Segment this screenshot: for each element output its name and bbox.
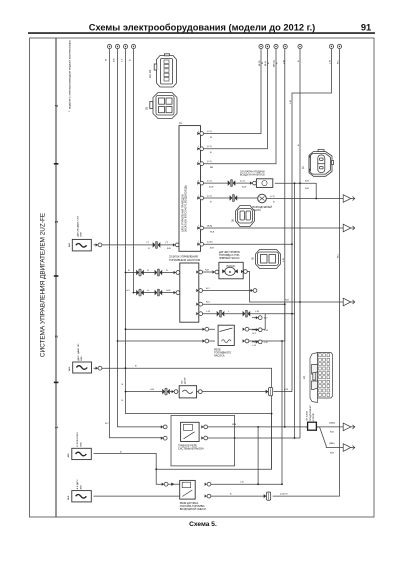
- connector splice fuel d1: [217, 310, 225, 317]
- svg-text:(L-Y): (L-Y): [270, 196, 275, 198]
- svg-text:(L-Y): (L-Y): [207, 146, 212, 148]
- sender right pin: [241, 270, 247, 274]
- fuel ECU pin Rd: [196, 312, 202, 316]
- svg-text:G-Y: G-Y: [126, 290, 130, 292]
- wire A1 vertical from terminal to main relay pin1: [110, 49, 164, 438]
- svg-text:(B-O): (B-O): [259, 60, 261, 66]
- svg-text:G: G: [147, 290, 149, 292]
- wire A4 vertical to fuel pump ECU row: [133, 49, 135, 293]
- wire long drop B4: [284, 49, 286, 427]
- terminal battery row A1: [107, 44, 111, 48]
- terminal B4: [283, 44, 287, 48]
- svg-text:Схема 5.: Схема 5.: [189, 521, 217, 528]
- sensor S5 knock sensor box: [179, 378, 196, 398]
- svg-text:(**): (**): [165, 242, 168, 244]
- svg-text:ТОПЛИВНЫМ НАСОСОМ: ТОПЛИВНЫМ НАСОСОМ: [169, 258, 200, 262]
- svg-text:(**): (**): [146, 242, 149, 244]
- valve left pin: [250, 181, 256, 185]
- terminal B2: [265, 44, 269, 48]
- terminal pump relay R2: [243, 339, 249, 343]
- terminal afr relay L1: [162, 482, 168, 486]
- svg-text:2: 2: [54, 335, 59, 338]
- svg-text:И РЕЛЕ: И РЕЛЕ: [313, 412, 315, 421]
- zone tick 4/3: [54, 163, 59, 165]
- wire ECU pin3: [204, 49, 277, 164]
- svg-text:5: 5: [198, 196, 199, 198]
- wire fuel sender to arrow: [245, 272, 343, 303]
- wire splice stub 2: [252, 329, 258, 331]
- terminal pump relay L2: [203, 339, 209, 343]
- ground arrow 3: [343, 298, 355, 306]
- svg-text:ЛИВНЫЙ НАСОС: ЛИВНЫЙ НАСОС: [219, 257, 240, 260]
- svg-text:ВОЗДУШНОЙ СМЕСИ: ВОЗДУШНОЙ СМЕСИ: [180, 508, 206, 511]
- svg-text:3: 3: [54, 220, 59, 223]
- splice end 1: [256, 316, 262, 320]
- wire fuse branch to arrow 5: [320, 427, 344, 448]
- wire terminal B5 drop: [299, 49, 301, 438]
- sensor S3 o2 sensor box: [67, 432, 91, 460]
- wire fuel ECU row b: [126, 272, 178, 274]
- svg-text:W-B: W-B: [232, 424, 237, 426]
- wire terminal C1 bend: [292, 49, 332, 392]
- wire relay afr right bottom: [211, 495, 266, 497]
- wire ECU pin1: [204, 49, 262, 134]
- svg-text:СИСТЕМЫ ВПРЫСКА: СИСТЕМЫ ВПРЫСКА: [178, 447, 204, 450]
- wire pump relay left stubs: [118, 329, 215, 341]
- svg-text:L-Y: L-Y: [122, 58, 124, 62]
- ground arrow 4: [343, 423, 355, 431]
- svg-text:B-R: B-R: [114, 58, 116, 62]
- wire splice stub 1: [252, 317, 258, 319]
- svg-text:(L-Y): (L-Y): [207, 180, 212, 182]
- svg-text:(L-Y): (L-Y): [207, 195, 212, 197]
- svg-text:B-Y: B-Y: [105, 423, 109, 425]
- svg-text:(L-Y): (L-Y): [240, 180, 245, 182]
- terminal C1: [329, 44, 333, 48]
- connector splice row g1: [136, 289, 144, 296]
- fuel ECU pin Ra: [196, 270, 202, 274]
- wire ECU pin4 to intake valve: [204, 182, 253, 184]
- svg-text:W-B: W-B: [210, 231, 215, 233]
- wire pump ECU pin b: [201, 290, 253, 292]
- junction block enclosure: [171, 416, 235, 466]
- relay K1 fuel pump relay: [214, 325, 234, 357]
- sensor S2 temp sensor box: [68, 343, 92, 373]
- svg-text:(BR-B): (BR-B): [273, 60, 275, 67]
- svg-text:4: 4: [54, 104, 59, 107]
- wire relay afr left link: [168, 483, 180, 485]
- wire pump ECU pin a: [201, 271, 217, 273]
- svg-text:R-B: R-B: [330, 432, 334, 434]
- svg-text:ЕМ, М2: ЕМ, М2: [149, 69, 152, 78]
- wire pump relay right top to bowtie row: [249, 314, 265, 330]
- ECU pin 7: [197, 242, 203, 246]
- svg-text:1: 1: [54, 426, 59, 429]
- connector X3 round illustration: [302, 150, 334, 177]
- svg-text:ДТОЖ: ДТОЖ: [185, 378, 187, 384]
- connector splice fuel d2: [243, 310, 251, 317]
- wire A3 vertical then top of junction-block loop: [126, 49, 272, 470]
- svg-text:Схемы электрооборудования (мод: Схемы электрооборудования (модели до 201…: [89, 23, 316, 33]
- svg-text:R-B: R-B: [205, 269, 209, 271]
- wire fuel ECU row g: [134, 292, 178, 294]
- sender left pin: [213, 270, 219, 274]
- svg-text:(R-B): (R-B): [207, 225, 212, 227]
- wire knock sensor row: [126, 391, 293, 393]
- wire intake valve to riser: [275, 183, 316, 198]
- connector splice knock line: [162, 388, 170, 395]
- header rule: [28, 32, 375, 34]
- svg-text:4: 4: [198, 131, 199, 133]
- splice end 2: [256, 328, 262, 332]
- svg-text:B-R: B-R: [210, 248, 214, 250]
- connector X6 multipin block illustration: [303, 353, 332, 403]
- terminal B1: [259, 44, 263, 48]
- connector X5 fuel sender illustration: [251, 250, 280, 269]
- fuse F1 engine room fuse block: [306, 404, 319, 430]
- connector splice battery line: [153, 242, 161, 249]
- svg-text:ПРЕДОХРАНИТ.: ПРЕДОХРАНИТ.: [309, 404, 312, 421]
- wire ECU pin7 junction with C1 drop: [204, 243, 293, 245]
- sensor S4 o2 sensor box 2: [67, 479, 91, 502]
- ECU pin 5: [197, 196, 203, 200]
- wire relay afr right top: [211, 483, 282, 485]
- wire main relay R2 feed: [208, 437, 301, 439]
- svg-text:3: 3: [198, 146, 199, 148]
- svg-text:А-Е ДАТЧ: А-Е ДАТЧ: [76, 479, 79, 489]
- wire pump ECU pin d: [201, 313, 295, 315]
- wire air pump to arrow: [266, 198, 343, 200]
- svg-text:B-R: B-R: [167, 248, 171, 250]
- fuel ECU pin Rc: [196, 302, 202, 306]
- terminal A2: [115, 44, 119, 48]
- wire battery feed horizontal: [94, 244, 176, 246]
- wire branch to afr sensor relay line: [281, 341, 283, 484]
- zone tick 2/1: [54, 382, 59, 384]
- terminal knock box left: [172, 390, 178, 394]
- terminal A3: [123, 44, 127, 48]
- svg-text:ВКЛ: ВКЛ: [80, 485, 82, 490]
- svg-text:8: 8: [198, 181, 199, 183]
- sensor S2 right pin: [96, 366, 102, 370]
- connector splice row g2: [155, 289, 163, 296]
- connector X4 oval illustration: [232, 206, 255, 227]
- terminal afr relay R2: [205, 494, 211, 498]
- terminal afr relay R1: [205, 482, 211, 486]
- svg-text:02 МОНИ ВКЛ: 02 МОНИ ВКЛ: [77, 432, 79, 447]
- wire terminal C2 long drop: [273, 49, 340, 497]
- svg-text:ВБК: ВБК: [81, 356, 83, 361]
- svg-text:АКБ: АКБ: [67, 453, 70, 458]
- svg-text:R-B: R-B: [330, 452, 334, 454]
- fuel pump ECU U2: [169, 255, 200, 323]
- wire pump relay right bottom to fuel ECU pin c line: [249, 304, 285, 341]
- terminal pump relay L1: [203, 327, 209, 331]
- connector X1 six pin illustration: [149, 54, 177, 87]
- ECU pin 2: [197, 147, 203, 151]
- svg-text:(L-B) W: (L-B) W: [280, 493, 288, 495]
- svg-text:91: 91: [361, 23, 371, 33]
- single plug knock: [266, 388, 273, 396]
- svg-text:G-R: G-R: [150, 389, 154, 391]
- fuel ECU pin La: [174, 271, 180, 275]
- sensor S1 right pin: [96, 243, 102, 247]
- svg-text:L-B: L-B: [264, 342, 268, 344]
- wire A2 vertical to main relay pin: [118, 49, 164, 427]
- ECU pin 6: [197, 226, 203, 230]
- terminal A4: [131, 44, 135, 48]
- ECU pin 4: [197, 181, 203, 185]
- wire ECU pin6 to arrow: [204, 227, 344, 229]
- svg-text:ОБА: ОБА: [79, 442, 82, 447]
- svg-text:BR: BR: [210, 167, 213, 169]
- svg-text:B-R: B-R: [305, 188, 309, 190]
- zone tick 3/2: [54, 275, 59, 277]
- connector splice valve line: [228, 180, 236, 187]
- splice end 3: [256, 340, 262, 344]
- svg-text:(B-L): (B-L): [265, 61, 267, 66]
- svg-text:1: 1: [198, 242, 199, 244]
- svg-text:СИСТЕМА УПРАВЛЕНИЯ ДВИГАТЕЛЕМ: СИСТЕМА УПРАВЛЕНИЯ ДВИГАТЕЛЕМ 2UZ-FE: [40, 213, 47, 357]
- terminal sender b end: [251, 289, 257, 293]
- svg-text:(GAD): (GAD): [329, 422, 335, 425]
- svg-text:АКБ: АКБ: [67, 495, 70, 500]
- ground arrow 5: [343, 444, 355, 452]
- svg-text:(L-W): (L-W): [207, 242, 213, 244]
- svg-text:*: модели с электроприводом пе: *: модели с электроприводом педали аксел…: [68, 40, 72, 112]
- terminal main relay L1: [161, 425, 167, 429]
- wire pump ECU pin c: [201, 303, 285, 305]
- terminal pump relay R1: [243, 327, 249, 331]
- svg-text:B-R: B-R: [305, 181, 309, 183]
- ground arrow 1: [343, 195, 355, 203]
- sensor S1 battery sensor box: [68, 215, 92, 250]
- ground arrow 2: [343, 224, 355, 232]
- ECU pin 1: [197, 132, 203, 136]
- terminal B3: [274, 44, 278, 48]
- valve V1 intake air admission valve: [240, 171, 273, 188]
- svg-text:ДАТЧ. ДАВЛ. ВО: ДАТЧ. ДАВЛ. ВО: [77, 343, 80, 360]
- terminal main relay R1: [201, 425, 207, 429]
- left zone ruler line: [55, 38, 57, 517]
- svg-text:ДАТЧИК ДАВЛ. ЧИХ: ДАТЧИК ДАВЛ. ЧИХ: [77, 215, 80, 236]
- wire main relay right top to fuse arrow: [208, 426, 344, 428]
- svg-text:(L-Y): (L-Y): [207, 161, 212, 163]
- connector X2 four pin illustration: [146, 93, 178, 119]
- svg-text:АКБ: АКБ: [68, 366, 71, 371]
- svg-text:(L-Y): (L-Y): [207, 131, 212, 133]
- svg-text:B-Y: B-Y: [206, 288, 210, 290]
- svg-text:НАСОСА: НАСОСА: [214, 355, 225, 358]
- svg-text:АКБ: АКБ: [68, 242, 71, 247]
- svg-text:L-R: L-R: [253, 345, 257, 347]
- svg-text:(PAD): (PAD): [329, 442, 335, 445]
- svg-text:7: 7: [198, 226, 199, 228]
- op-amp U1 intake shutter ECU box: [179, 122, 201, 251]
- diagram frame: [30, 38, 375, 517]
- wire labels: [105, 58, 340, 496]
- wire temp sensor horizontal: [94, 368, 272, 469]
- fuel ECU pin Rb: [196, 289, 202, 293]
- connector splice row b2: [155, 269, 163, 276]
- svg-text:L-B: L-B: [240, 482, 244, 484]
- terminal ecu left in: [173, 243, 179, 247]
- svg-text:ЭЛ. БЛОК: ЭЛ. БЛОК: [307, 410, 309, 421]
- svg-text:ВОЗДУХА НА ВПУСК: ВОЗДУХА НА ВПУСК: [240, 174, 265, 177]
- air pump M2: [252, 194, 272, 212]
- terminal main relay L2: [161, 436, 167, 440]
- wire o2 sensor2 row: [94, 495, 180, 497]
- terminal main relay R2: [201, 436, 207, 440]
- wire ECU pin2: [204, 49, 268, 149]
- wire ECU pin5 to air pump: [204, 197, 258, 199]
- relay K2 main injection relay: [178, 422, 204, 450]
- svg-text:ККМ: ККМ: [81, 232, 83, 237]
- ECU pin 3: [197, 162, 203, 166]
- fuel ECU pin Lb: [174, 291, 180, 295]
- svg-text:2: 2: [198, 161, 199, 163]
- relay K3 air fuel ratio sensor relay: [180, 480, 206, 511]
- fuel level sender and pump M1: [219, 251, 243, 279]
- wire splice stub 3: [252, 341, 258, 343]
- terminal knock box right: [196, 390, 202, 394]
- connector splice row b1: [136, 269, 144, 276]
- svg-text:ЗАСЛОНОК ВПУСКНОГО ВОЗДУХОВОДА: ЗАСЛОНОК ВПУСКНОГО ВОЗДУХОВОДА: [185, 185, 188, 232]
- terminal B5: [298, 44, 302, 48]
- wire junction drop to afr relay line: [257, 427, 259, 484]
- svg-text:B-Y: B-Y: [253, 333, 257, 335]
- junction dots: [294, 437, 296, 439]
- svg-text:B-O: B-O: [206, 302, 210, 304]
- single plug afr: [264, 492, 271, 500]
- svg-text:R-B: R-B: [285, 299, 289, 301]
- wire o2 sensor1 row: [94, 453, 165, 484]
- terminal C2: [337, 44, 341, 48]
- connector splice pump line: [230, 195, 238, 202]
- svg-text:B-Y: B-Y: [264, 318, 268, 320]
- wire bowtie row to main relay: [294, 183, 296, 438]
